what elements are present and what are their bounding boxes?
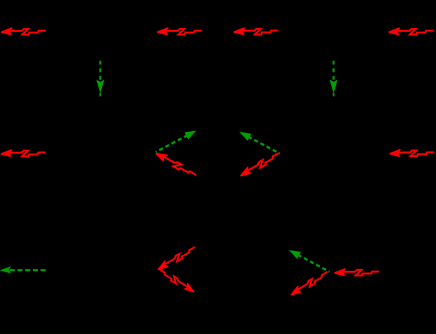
transition arrow G4 (green dashed diagonal up-left, middle right) xyxy=(237,128,281,157)
photon arrow R9 (diagonal, pointing down-left from right middle vertex) xyxy=(239,151,281,178)
transition arrow G3 (green dashed diagonal up-right, middle left) xyxy=(154,127,198,156)
photon arrow R5 (middle row, far left) xyxy=(1,150,45,156)
photon arrow R11 (diagonal, pointing down-right, bottom-left cluster) xyxy=(157,267,195,293)
photon arrow R1 (top row, far left) xyxy=(2,28,46,34)
photon arrow R2 (top row, second) xyxy=(158,28,202,34)
transition arrow G5 (green dashed horizontal, bottom far left) xyxy=(1,267,47,273)
photon arrow R12 (diagonal, pointing down-left, bottom-right cluster) xyxy=(289,270,329,297)
transition arrow G2 (green dashed vertical, right) xyxy=(330,59,338,97)
photon arrow R10 (diagonal, pointing down-left, bottom-left cluster) xyxy=(156,245,196,272)
transition arrow G6 (green dashed diagonal up-left, bottom right cluster) xyxy=(287,246,331,275)
photon arrow R6 (middle row, far right) xyxy=(390,150,434,156)
photon arrow R4 (top row, far right) xyxy=(389,28,433,34)
photon arrow R8 (diagonal, pointing up-left into left middle vertex) xyxy=(155,150,197,178)
photon arrow R7 (horizontal, bottom right) xyxy=(335,269,379,275)
photon arrow R3 (top row, third) xyxy=(234,28,278,34)
transition arrow G1 (green dashed vertical, left) xyxy=(96,59,104,97)
